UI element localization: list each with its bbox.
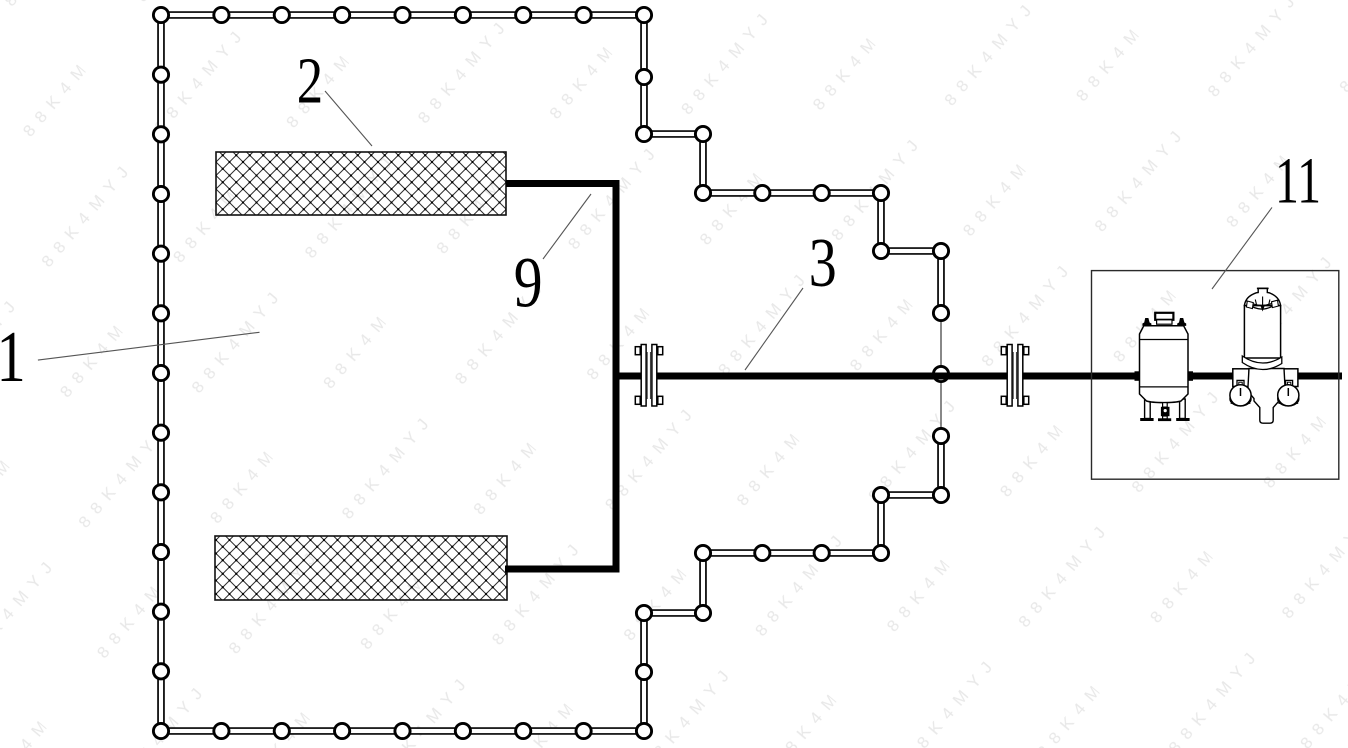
filter top ring tabs — [1246, 301, 1253, 309]
svg-text:9: 9 — [514, 244, 543, 324]
svg-text:2: 2 — [297, 44, 323, 117]
tank inlet nub left — [1135, 371, 1140, 381]
filter dome and cap — [1244, 288, 1280, 305]
filter body manifold — [1248, 369, 1285, 424]
leader line for 11 — [1212, 207, 1272, 289]
wire single crossing line at x=941 — [940, 313, 942, 436]
filter knob left — [1230, 392, 1251, 406]
wire boundary double-line pipe network (field loop 1) — [161, 15, 941, 731]
tank nozzle left — [1142, 318, 1151, 326]
tank outlet nub right — [1188, 371, 1193, 381]
tank nozzle right — [1177, 318, 1186, 326]
filter collar band — [1242, 356, 1282, 370]
pipe 3 (main horizontal pipe) — [613, 373, 1343, 380]
tank handle — [1155, 313, 1173, 320]
flange coupling B — [1001, 345, 1028, 407]
svg-text:11: 11 — [1275, 144, 1321, 217]
flange coupling A — [635, 345, 662, 407]
filter-belt 2 (top hatched rectangle) — [216, 152, 506, 215]
filter top ring arcs — [1246, 300, 1279, 309]
node junction circle on main pipe — [933, 366, 948, 381]
svg-text:3: 3 — [809, 224, 837, 301]
filter knob stem left — [1237, 380, 1244, 386]
filter knob right — [1278, 392, 1299, 406]
tank (fertilizer tank) — [1135, 313, 1194, 421]
filter unit — [1230, 288, 1299, 423]
filter knob stem right — [1286, 380, 1293, 386]
leader line for 2 — [325, 91, 372, 146]
equipment box 11 — [1092, 271, 1339, 480]
node circles (emitters) — [153, 7, 948, 738]
filter flange block left — [1233, 369, 1249, 387]
pipe 9 (thick connector: top belt, down, bottom belt) — [505, 184, 616, 570]
filter flange block right — [1282, 369, 1298, 387]
tank legs — [1145, 399, 1151, 419]
filter cap lip — [1257, 287, 1269, 289]
tank body — [1140, 326, 1189, 403]
filter top center triangle — [1260, 306, 1264, 312]
leader line for 1 — [38, 332, 260, 360]
svg-text:1: 1 — [0, 317, 26, 398]
leader line for 9 — [543, 194, 591, 259]
filter cylinder — [1244, 306, 1280, 359]
tank drain valve — [1163, 403, 1168, 408]
filter top ring ticks — [1255, 297, 1270, 307]
filter-belt (bottom hatched rectangle) — [215, 536, 507, 600]
leader line for 3 — [745, 288, 803, 370]
